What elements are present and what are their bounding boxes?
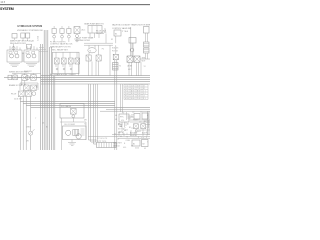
svg-text:04 2: 04 2 <box>128 69 131 71</box>
table side verticals <box>121 84 123 112</box>
svg-text:E4: E4 <box>128 140 130 142</box>
bottom bus lines <box>112 135 150 139</box>
row2 valve 2 <box>31 85 37 91</box>
svg-text:04 T: 04 T <box>131 114 134 116</box>
svg-text:X2: X2 <box>131 146 133 148</box>
pump A2 inner marks <box>26 52 29 54</box>
pilot pump block stems <box>90 33 99 38</box>
wire to right edge <box>140 58 150 60</box>
svg-text:04: 04 <box>120 136 122 138</box>
pilot circle above A1 <box>12 47 15 50</box>
svg-text:F1: F1 <box>102 49 104 51</box>
bus extra lines lower <box>53 76 55 150</box>
relief valve D2 <box>96 55 101 61</box>
cooler core box <box>73 130 79 136</box>
J circle <box>72 115 75 118</box>
svg-text:B1: B1 <box>133 143 135 145</box>
horizontal main band 1 <box>41 76 150 84</box>
cluster drop wires with corners into band2 <box>19 97 21 150</box>
B1 diagonal marks <box>122 127 126 131</box>
svg-text:P 08: P 08 <box>137 98 141 100</box>
svg-text:MAIN RELIEF P1 P2 P3: MAIN RELIEF P1 P2 P3 <box>50 45 70 48</box>
pump P2 circle bottom <box>76 134 81 139</box>
pilot gauge symbol 3 box <box>67 29 71 34</box>
pump group A2 box <box>24 50 39 62</box>
pump A2 circle 1 <box>27 54 31 58</box>
check valve circle on drop <box>29 131 33 135</box>
svg-text:L2: L2 <box>133 112 135 114</box>
band2 extra right lines <box>100 109 150 111</box>
row2 wires <box>20 83 38 90</box>
svg-text:06: 06 <box>124 130 126 132</box>
svg-text:VALVE BLOCK ASSY TRAVEL MOTOR: VALVE BLOCK ASSY TRAVEL MOTOR SWING <box>112 24 150 27</box>
pump group A1 box <box>7 50 22 62</box>
horizontal band 2 nested from corners <box>20 101 150 107</box>
parts table text rows <box>125 86 146 101</box>
bottom-right extra micro marks <box>118 123 120 125</box>
pilot pump block top <box>88 26 102 34</box>
row1 right box <box>31 75 37 81</box>
valve L2 <box>141 124 146 129</box>
J bottom wires <box>60 118 86 150</box>
svg-text:T 02: T 02 <box>141 138 144 140</box>
svg-text:A1: A1 <box>43 122 45 125</box>
right stack wires <box>146 33 148 59</box>
band1 extension left <box>4 77 41 79</box>
bottom right wire stubs <box>121 116 150 130</box>
right edge stack box 2 <box>144 42 150 47</box>
svg-text:REGULATOR DR1: REGULATOR DR1 <box>10 42 26 45</box>
svg-text:06: 06 <box>115 115 117 117</box>
long vertical pair right of D <box>115 60 117 150</box>
pump A1 inner marks <box>9 52 12 54</box>
top right small box <box>129 38 136 44</box>
bus left stubs <box>39 48 48 52</box>
bottom right box b2 <box>142 140 149 147</box>
row1 valve 2 <box>22 75 27 81</box>
solenoid coil hatch box E2 <box>113 63 119 71</box>
oval stems <box>89 45 99 55</box>
left cluster arrows <box>21 80 26 85</box>
row1 gauge circle <box>26 76 30 80</box>
extra right column vertical <box>140 62 142 76</box>
svg-text:T3: T3 <box>126 136 128 138</box>
pilot gauge symbol 3 circle <box>68 35 71 38</box>
pilot gauge symbol 2 circle <box>61 35 64 38</box>
valve C2 <box>62 58 67 64</box>
valve C3 stems <box>70 52 72 75</box>
row1 link wires <box>17 76 40 78</box>
svg-text:TANK RET: TANK RET <box>113 141 123 144</box>
svg-text:M 04: M 04 <box>125 98 129 100</box>
svg-text:4B: 4B <box>120 126 122 128</box>
header rule <box>0 4 150 6</box>
regulator box above A2 <box>27 44 32 48</box>
svg-text:06: 06 <box>117 139 119 141</box>
svg-text:LINE 04: LINE 04 <box>113 145 120 147</box>
svg-text:SEC. RELIEF SET: SEC. RELIEF SET <box>52 49 69 51</box>
fourth drop with check valve <box>30 97 32 150</box>
accumulator circle <box>76 35 79 38</box>
cooler fan circle <box>66 130 71 135</box>
svg-text:P1 P2: P1 P2 <box>36 36 38 41</box>
valve C2 stems <box>63 52 65 75</box>
svg-text:04 06 08: 04 06 08 <box>130 135 136 137</box>
svg-text:SOL V3: SOL V3 <box>112 48 118 50</box>
filter valve D1 <box>86 55 91 61</box>
svg-text:BRAKE VV 2SP: BRAKE VV 2SP <box>9 84 23 87</box>
left cluster row1 diamond valve <box>13 75 18 80</box>
svg-text:2 4: 2 4 <box>140 112 142 114</box>
extra feeder verticals <box>106 34 110 76</box>
svg-text:B2: B2 <box>129 127 131 129</box>
svg-text:T4: T4 <box>144 66 146 68</box>
valve box above pumps 1 <box>12 34 17 39</box>
svg-text:N 06: N 06 <box>131 98 135 100</box>
wires linking r1 r2 <box>130 120 150 122</box>
pump A1 circle 1 <box>10 54 14 58</box>
svg-text:S6: S6 <box>144 121 146 123</box>
svg-text:GEAR PUMP ASSY P4: GEAR PUMP ASSY P4 <box>84 22 104 25</box>
parts table grid <box>124 85 148 100</box>
pilot gauge symbol 1 box <box>52 29 56 34</box>
row3 valve 2 <box>26 91 32 97</box>
svg-text:PILOT: PILOT <box>11 94 17 96</box>
pilot circle stem <box>13 44 15 52</box>
svg-text:02 6: 02 6 <box>121 120 124 122</box>
right edge stack box 1 <box>144 27 150 34</box>
cooler bottom hatch <box>68 143 76 146</box>
svg-text:R 1: R 1 <box>143 98 146 100</box>
svg-text:Y2: Y2 <box>119 65 121 67</box>
pump A1 drain hatch <box>9 63 20 66</box>
row3 valve 1 <box>19 91 25 97</box>
solenoid block top <box>114 30 121 36</box>
valve box above pumps 3 <box>26 33 30 38</box>
solenoid X valve <box>113 54 118 59</box>
bottom right small box r1 <box>134 114 140 120</box>
cooler marks <box>81 129 85 135</box>
junction box J outline <box>60 104 84 119</box>
svg-text:T1 T2 T3 T4: T1 T2 T3 T4 <box>97 141 107 143</box>
bottom right box b1 <box>132 140 140 146</box>
svg-text:CHK1: CHK1 <box>26 127 31 129</box>
svg-text:04 0: 04 0 <box>123 147 126 149</box>
valve C3 <box>69 58 74 64</box>
svg-text:P1 SV1 P2 SV2 P3: P1 SV1 P2 SV2 P3 <box>50 42 65 44</box>
swing motor circle <box>130 48 134 52</box>
svg-text:A8 B8: A8 B8 <box>128 65 133 68</box>
right edge stack box 3 <box>144 48 150 53</box>
gear pump oval <box>88 48 96 53</box>
svg-text:08: 08 <box>115 119 117 121</box>
J valve <box>71 109 77 115</box>
wire between pump groups <box>22 52 24 62</box>
travel valve F2 <box>134 56 140 62</box>
center vertical drops to bottom <box>89 84 94 144</box>
travel valve drops <box>129 62 139 76</box>
bottom bus stubs <box>119 129 147 136</box>
accumulator column <box>74 27 80 34</box>
svg-text:K2: K2 <box>126 130 128 132</box>
valve L1 <box>134 124 139 129</box>
pump A2 circle 2 <box>32 54 36 58</box>
cooler box outline <box>63 126 87 140</box>
pilot gauge symbol 2 box <box>60 29 64 34</box>
valve C check circles <box>56 68 58 70</box>
accumulator hatch <box>74 39 80 42</box>
svg-text:T: T <box>35 118 36 120</box>
drop corner bends into terminal strip <box>89 140 97 144</box>
right edge vertical pair lower <box>147 111 149 134</box>
svg-text:HYDRAULIK SYSTEM: HYDRAULIK SYSTEM <box>18 25 43 28</box>
valve C4 stems <box>77 52 79 75</box>
pump A2 stems <box>27 46 37 50</box>
terminal strip <box>97 143 117 148</box>
svg-text:OIL COOLER: OIL COOLER <box>64 124 76 126</box>
bottom right small box r2 <box>142 113 148 119</box>
svg-text:SOL VALVE: SOL VALVE <box>61 105 72 108</box>
svg-text:C5 1: C5 1 <box>139 122 142 124</box>
pump A1 stems <box>10 46 20 50</box>
svg-text:T2: T2 <box>84 123 86 125</box>
pump A2 drain hatch <box>26 63 37 66</box>
valve C1 stems <box>56 52 58 75</box>
svg-text:HYDRAULIC SYSTEMS 20K: HYDRAULIC SYSTEMS 20K <box>17 29 43 32</box>
valve box above pumps 2 <box>21 33 25 38</box>
svg-text:S2: S2 <box>111 39 113 41</box>
pump A1 circle 2 <box>15 54 19 58</box>
travel valve F1 <box>127 56 133 62</box>
svg-text:SYSTEM: SYSTEM <box>0 7 14 11</box>
control valve block C outline <box>53 52 80 73</box>
valve C1 <box>55 58 60 64</box>
svg-text:MAIN PUMP GROUP A1-A2: MAIN PUMP GROUP A1-A2 <box>10 40 34 43</box>
svg-text:02 04: 02 04 <box>135 148 139 150</box>
svg-text:PLT 08: PLT 08 <box>112 50 118 52</box>
double wire under pump D <box>84 43 113 45</box>
row2 valve 1 <box>24 85 30 91</box>
svg-text:CONTROL VALVE RH: CONTROL VALVE RH <box>112 27 131 30</box>
svg-text:SWING MOTOR PARK: SWING MOTOR PARK <box>9 71 29 74</box>
svg-text:03: 03 <box>144 148 146 150</box>
tank lines right of cooler <box>86 122 112 140</box>
cluster top wire <box>12 73 41 75</box>
bottom right box B1 <box>119 114 129 122</box>
top right vertical feeders <box>131 27 133 56</box>
D drops to band <box>89 61 99 76</box>
circle small bottom right <box>135 130 137 132</box>
svg-text:P T A B: P T A B <box>122 30 129 33</box>
row3 gauge circle <box>32 92 36 96</box>
main vertical bus lines <box>44 30 48 150</box>
solenoid stems <box>115 36 117 54</box>
row1 left small box <box>8 75 12 79</box>
svg-text:SV 08: SV 08 <box>118 128 122 130</box>
pilot gauge symbol 1 circle <box>53 35 56 38</box>
valve C4 <box>75 58 80 64</box>
svg-text:7: 7 <box>147 142 148 144</box>
svg-text:C2: C2 <box>114 133 116 135</box>
svg-text:10.5: 10.5 <box>0 1 5 4</box>
svg-text:B3: B3 <box>46 127 48 129</box>
svg-text:05 2: 05 2 <box>138 131 141 133</box>
svg-text:B2: B2 <box>143 143 145 145</box>
svg-text:1 2 3 4 5 6 7 8: 1 2 3 4 5 6 7 8 <box>97 138 107 140</box>
svg-text:P3: P3 <box>36 85 38 87</box>
svg-text:04 06 SET: 04 06 SET <box>14 98 22 100</box>
bottom-right extra marks <box>127 116 147 128</box>
svg-text:V2: V2 <box>131 116 133 118</box>
B1 drops <box>122 122 125 127</box>
